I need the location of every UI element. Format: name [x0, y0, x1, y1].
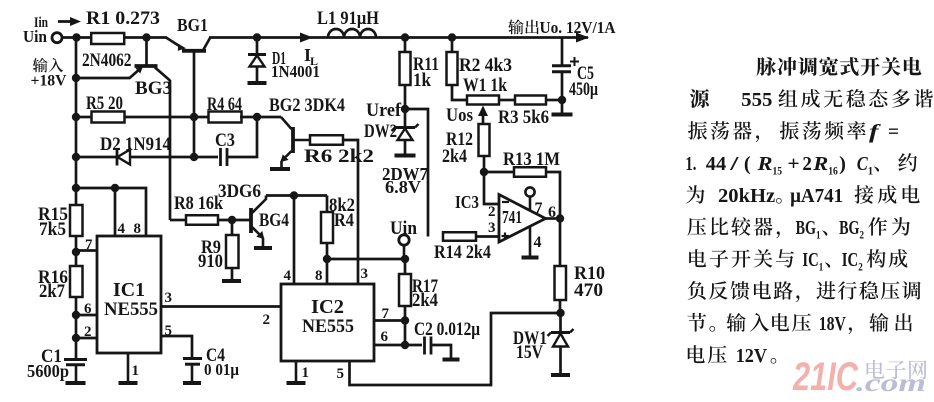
svg-text:1k: 1k — [413, 70, 431, 91]
resistor R10 — [555, 266, 567, 300]
wire op-amp output — [546, 217, 561, 220]
text 压比较器，BG1、BG2 作为 — [687, 217, 909, 242]
label pin3 (IC3) — [488, 220, 496, 236]
svg-text:555: 555 — [741, 89, 772, 111]
svg-text:+: + — [787, 153, 799, 175]
wire Uref to R14 — [405, 109, 428, 237]
svg-text:3: 3 — [488, 220, 496, 236]
label C1 — [41, 346, 62, 367]
label 15V — [516, 342, 543, 363]
svg-text:/: / — [729, 153, 739, 175]
transistor BG3 bar — [135, 64, 158, 68]
resistor R12 — [479, 124, 490, 156]
wire R17 to pin6 row — [404, 321, 407, 346]
svg-text:BG1: BG1 — [177, 15, 208, 35]
ground BG4 — [254, 246, 272, 250]
ground DW1 — [551, 373, 570, 377]
svg-text:18V: 18V — [819, 313, 847, 335]
svg-text:BG: BG — [839, 217, 860, 239]
svg-text:(: ( — [744, 153, 751, 175]
resistor R2 — [447, 52, 458, 85]
wire BG3 collector down — [169, 80, 172, 220]
watermark .com — [856, 370, 926, 397]
ground C5 lead — [561, 100, 564, 113]
text 1.44/(R15+2R16) C1、约 — [685, 153, 917, 178]
label L1 91μH — [317, 8, 379, 29]
wire C2 left — [405, 344, 422, 347]
wire C5 top — [561, 38, 564, 66]
wire R13 left — [484, 171, 514, 174]
text title 源 — [690, 89, 709, 108]
svg-text:R4 64: R4 64 — [207, 94, 242, 115]
label DW2 — [364, 121, 397, 142]
label IC2 pin6 — [381, 329, 389, 345]
svg-text:W1 1k: W1 1k — [463, 75, 507, 96]
label 741 — [502, 207, 522, 227]
label IC2 — [311, 296, 344, 318]
label R4 64 — [207, 94, 242, 115]
capacitor C3 — [221, 148, 228, 166]
junction pin6 row IC2 — [401, 341, 409, 349]
svg-text:1: 1 — [302, 365, 310, 381]
ground op-amp pin4 — [522, 256, 539, 260]
transistor BG1 collector — [204, 38, 211, 50]
label IC2 pin5 — [337, 366, 345, 382]
svg-text:DW2: DW2 — [364, 121, 397, 142]
junction 8k2 bottom — [323, 255, 331, 263]
label R4 (8k2) — [334, 210, 354, 231]
svg-text:5: 5 — [165, 323, 173, 339]
text 节。输入电压 18V，输出 — [687, 313, 911, 335]
label 5600p — [27, 361, 69, 381]
label 2N4062 — [82, 50, 132, 71]
wire R8 left — [170, 219, 186, 222]
transistor BG1 emitter — [166, 38, 186, 51]
wire C3 left — [194, 156, 218, 159]
label R1 0.273 — [86, 8, 160, 29]
IC2 NE555 box — [281, 284, 374, 361]
svg-text:470: 470 — [574, 280, 603, 301]
svg-text:2k4: 2k4 — [412, 290, 438, 311]
transistor BG3 emitter — [129, 67, 143, 79]
junction pin6 row — [72, 311, 80, 319]
label R5 20 — [86, 93, 123, 114]
svg-text:1: 1 — [868, 164, 873, 178]
output arrow — [576, 33, 589, 43]
label R12 — [446, 129, 473, 150]
svg-text:C2 0.012μ: C2 0.012μ — [414, 319, 480, 340]
svg-text:R5 20: R5 20 — [86, 93, 123, 114]
resistor R17 lead top — [404, 259, 407, 274]
diode D2 — [117, 149, 130, 166]
svg-text:R14 2k4: R14 2k4 — [434, 242, 491, 263]
label IC1 pin6 — [84, 301, 92, 317]
label R14 2k4 — [434, 242, 491, 263]
wire D2 row left — [76, 156, 118, 159]
resistor R10 lead — [559, 300, 562, 313]
svg-text:16: 16 — [828, 164, 838, 178]
junction R5 row — [72, 113, 80, 121]
label 2k4 (R12) — [442, 146, 467, 167]
wire R6 to IC2 pin3 — [343, 140, 358, 284]
label pin4 (IC3) — [534, 234, 542, 251]
svg-text:20kHz: 20kHz — [718, 185, 775, 207]
transistor BG3 collector — [155, 68, 170, 81]
wire C3 right — [227, 117, 257, 157]
svg-text:BG: BG — [796, 217, 817, 239]
junction D1 top — [253, 33, 261, 41]
svg-text:4: 4 — [118, 221, 126, 237]
svg-text:IC1: IC1 — [113, 279, 145, 301]
resistor R14 — [443, 232, 476, 241]
wire R14 right — [476, 235, 499, 238]
label R13 1M — [503, 149, 560, 170]
svg-text:NE555: NE555 — [302, 316, 354, 337]
label IC3 — [455, 192, 479, 212]
junction R11 top — [401, 33, 409, 41]
svg-text:IC: IC — [802, 249, 818, 271]
pin IC2 4 stub — [293, 196, 296, 285]
transistor BG2 emitter — [280, 151, 291, 162]
wire D2 to BG1 base — [130, 156, 194, 159]
svg-text:2: 2 — [860, 228, 865, 242]
wire R16-C1 — [75, 297, 78, 359]
svg-text:4: 4 — [284, 268, 292, 284]
junction R1 right BG3 base — [142, 33, 150, 41]
svg-text:1.: 1. — [685, 153, 696, 175]
resistor R5 — [92, 112, 125, 123]
label IC2 pin2 — [263, 312, 271, 328]
junction IC1 pin4 — [111, 184, 119, 192]
label R10 — [574, 263, 605, 284]
svg-text:2N4062: 2N4062 — [82, 50, 132, 71]
ground BG2 — [270, 167, 290, 171]
wire op-amp pin2 — [484, 172, 499, 204]
wire R13 right — [546, 172, 560, 219]
junction R3 C5 — [558, 96, 566, 104]
diode D1 — [248, 55, 266, 67]
label NE555 (IC1) — [104, 299, 158, 320]
junction R10 bottom — [556, 309, 564, 317]
resistor R16 — [70, 266, 83, 297]
label 1N4001 — [271, 62, 320, 81]
resistor R12 lead — [483, 156, 486, 172]
label BG1 — [177, 15, 208, 35]
label R3 5k6 — [498, 107, 549, 128]
svg-text:15V: 15V — [516, 342, 543, 363]
svg-text:5600p: 5600p — [27, 361, 69, 381]
junction Uin row — [401, 255, 409, 263]
junction rail top — [72, 33, 80, 41]
svg-text:7: 7 — [382, 306, 390, 322]
svg-text:15: 15 — [773, 164, 783, 178]
svg-text:5: 5 — [337, 366, 345, 382]
pin IC1 4 stub — [114, 188, 117, 236]
svg-text:R4: R4 — [334, 210, 354, 231]
svg-text:910: 910 — [198, 251, 223, 272]
label IC1 pin7 — [85, 237, 93, 253]
label IC1 pin1 — [132, 363, 140, 379]
ground C2 — [443, 358, 460, 362]
svg-text:450μ: 450μ — [569, 79, 598, 100]
text 为 20kHz。μA741 接成电 — [686, 185, 920, 207]
junction pin7 row — [401, 316, 409, 324]
wire R15-R16 — [75, 236, 78, 266]
resistor R8 — [186, 215, 218, 225]
zener DW2 — [392, 124, 419, 140]
watermark 21IC — [792, 355, 859, 399]
op-amp plus mark — [502, 233, 510, 240]
junction IC1 supply row — [72, 184, 80, 192]
junction pin2 row — [72, 334, 80, 342]
zener DW1 lead bottom — [559, 347, 562, 375]
transistor BG2 collector — [281, 117, 292, 129]
wire R2 to W1 — [452, 85, 467, 100]
label IC2 pin4 — [284, 268, 292, 284]
svg-text:IC3: IC3 — [455, 192, 479, 212]
label pin7 (IC3) — [535, 200, 543, 217]
junction D2 row — [72, 153, 80, 161]
label R6 2k2 — [304, 146, 374, 167]
svg-text:3: 3 — [361, 266, 369, 282]
label +18V — [31, 73, 67, 90]
resistor R9 — [226, 235, 239, 268]
terminal Uin stub — [403, 245, 406, 259]
label IC2 pin3 — [361, 266, 369, 282]
potentiometer W1 wiper — [478, 106, 488, 125]
svg-text:1: 1 — [819, 260, 824, 274]
label IC1 — [113, 279, 145, 301]
label 2k4 (R17) — [412, 290, 438, 311]
svg-text:R13 1M: R13 1M — [503, 149, 560, 170]
resistor R15 — [70, 205, 83, 236]
label IC1 pin3 — [165, 290, 173, 306]
label IL — [304, 45, 318, 68]
label 450μ — [569, 79, 598, 100]
wire top rail right — [209, 36, 588, 39]
resistor 8k2 lead bottom — [326, 243, 329, 259]
ground C1 — [66, 381, 86, 385]
junction R2 top — [448, 33, 456, 41]
label 0.01μ — [204, 360, 239, 379]
potentiometer W1 — [467, 96, 499, 105]
transistor BG1 base lead — [193, 51, 196, 157]
label Iin — [34, 15, 48, 31]
terminal Uin input — [52, 33, 62, 43]
svg-text:C3: C3 — [215, 130, 235, 151]
op-amp U1 triangle — [499, 195, 546, 243]
junction R15 bottom — [72, 248, 80, 256]
inductor L1 — [328, 29, 376, 38]
junction D2 BG1 base — [190, 153, 198, 161]
transistor BG4 collector — [252, 196, 266, 214]
label R16 — [38, 267, 68, 288]
pin 4 ground lead — [529, 226, 532, 256]
label R11 — [413, 54, 439, 75]
resistor R2 lead — [451, 38, 454, 53]
resistor R11 — [400, 52, 411, 85]
svg-text:+18V: +18V — [31, 73, 67, 90]
capacitor C4 — [183, 359, 202, 365]
junction R12 bottom — [480, 168, 488, 176]
wire R8 right — [218, 219, 250, 222]
label 2k7 — [39, 281, 65, 302]
svg-text:2: 2 — [802, 153, 812, 175]
resistor R6 — [310, 135, 343, 145]
svg-text:R3 5k6: R3 5k6 — [498, 107, 549, 128]
wire R5 row — [76, 116, 210, 119]
diode D1 lead bottom — [256, 67, 259, 83]
svg-text:2: 2 — [858, 260, 863, 274]
pin IC2 1 stub — [295, 361, 298, 382]
wire BG3 emitter to rail — [76, 77, 130, 80]
pin IC2 8 stub — [326, 259, 329, 284]
svg-text:R: R — [756, 153, 772, 175]
wire R3 right — [546, 99, 562, 102]
capacitor C1 lead — [75, 365, 78, 382]
wire comparator to IC2 pin5 — [350, 313, 561, 385]
resistor R9 lead bottom — [231, 268, 234, 280]
text 电子开关与 IC1、IC2 构成 — [689, 249, 907, 274]
text 电压 12V。 — [688, 345, 777, 367]
wire VCC row IC2 — [327, 258, 406, 261]
wire IC1 supply row — [76, 188, 146, 236]
resistor 8k2 lead top — [326, 196, 329, 213]
svg-text:BG4: BG4 — [259, 210, 289, 231]
ground R9 — [222, 279, 241, 283]
pin IC2 7 wire — [374, 319, 405, 322]
wire W1 to R3 — [499, 99, 515, 102]
IC1 NE555 box — [97, 236, 161, 353]
label C2 0.012μ — [414, 319, 480, 340]
label plus C5 — [570, 57, 579, 66]
svg-text:2k7: 2k7 — [39, 281, 65, 302]
pin IC1 3 wire — [161, 305, 281, 308]
svg-text:R8 16k: R8 16k — [174, 193, 223, 214]
svg-text:8: 8 — [315, 268, 323, 284]
wire left rail — [75, 38, 78, 206]
label IC2 pin8 — [315, 268, 323, 284]
label IC1 pin8 — [134, 221, 142, 237]
label W1 1k — [463, 75, 507, 96]
ground D1 — [248, 81, 267, 85]
label pin2 (IC3) — [488, 204, 496, 220]
zener DW2 lead — [404, 140, 407, 154]
capacitor C2 — [425, 337, 432, 355]
label 2DW7 — [382, 164, 428, 184]
label IC2 pin7 — [382, 306, 390, 322]
op-amp minus mark — [502, 201, 509, 203]
junction R8 R9 BG4 — [228, 216, 236, 224]
pin IC1 6 wire — [76, 314, 97, 317]
resistor R3 — [515, 96, 546, 105]
label IC2 pin1 — [302, 365, 310, 381]
label 910 — [198, 251, 223, 272]
svg-text:2: 2 — [84, 324, 92, 340]
svg-text:Uref: Uref — [366, 100, 402, 121]
resistor R11 lead top — [404, 38, 407, 53]
resistor R4 8k2 — [321, 212, 333, 243]
label NE555 (IC2) — [302, 316, 354, 337]
svg-text:Iin: Iin — [34, 15, 48, 31]
label Uin (node) — [390, 218, 417, 239]
label DW1 — [513, 328, 547, 349]
svg-text:3: 3 — [165, 290, 173, 306]
label IC1 pin5 — [165, 323, 173, 339]
label C4 — [206, 345, 225, 366]
label D1 — [272, 48, 286, 68]
capacitor C5 — [552, 66, 571, 100]
terminal Uin node — [399, 235, 409, 245]
transistor BG4 emitter lead — [262, 238, 265, 247]
svg-text:μA741: μA741 — [790, 185, 843, 207]
text title 脉冲调宽式开关电 — [757, 57, 922, 76]
ground IC1 pin1 — [119, 381, 138, 385]
svg-text:=: = — [888, 121, 899, 143]
svg-text:BG2 3DK4: BG2 3DK4 — [269, 95, 345, 116]
pin IC1 2 wire — [76, 337, 97, 340]
resistor R1 — [91, 33, 124, 44]
label IC1 pin2 — [84, 324, 92, 340]
label 7k5 — [39, 219, 66, 240]
label pin6 (IC3) — [548, 204, 556, 221]
svg-text:Uin: Uin — [390, 218, 417, 239]
junction +18V row — [72, 74, 80, 82]
capacitor C1 — [64, 360, 87, 365]
transistor BG2 bar — [291, 127, 295, 153]
pin IC1 5 wire — [161, 336, 192, 358]
label Uos — [446, 105, 473, 126]
current arrow IL — [300, 33, 313, 43]
pin IC1 7 wire — [76, 249, 97, 252]
svg-text:R2 4k3: R2 4k3 — [459, 55, 512, 76]
svg-text:Uo. 12V/1A: Uo. 12V/1A — [540, 18, 617, 37]
svg-text:0 01μ: 0 01μ — [204, 360, 239, 379]
label R8 16k — [174, 193, 223, 214]
wire BG4 collector row — [266, 194, 327, 197]
label 3DG6 — [218, 181, 261, 202]
svg-text:3DG6: 3DG6 — [218, 181, 261, 202]
text 负反馈电路，进行稳压调 — [688, 281, 921, 302]
label BG4 — [259, 210, 289, 231]
diode D1 lead — [256, 38, 259, 56]
label R15 — [38, 204, 68, 225]
ground C4 — [183, 381, 201, 385]
capacitor C4 lead — [191, 365, 194, 383]
junction R4 right — [253, 113, 261, 121]
svg-text:D2 1N914: D2 1N914 — [100, 134, 171, 155]
transistor BG2 base lead — [293, 139, 310, 142]
label 6.8V — [385, 177, 421, 197]
label 输出Uo. 12V/1A — [508, 18, 616, 37]
current arrow Iin — [58, 17, 81, 26]
svg-text:8: 8 — [134, 221, 142, 237]
label C3 — [215, 130, 235, 151]
label C5 — [577, 63, 594, 84]
svg-text:R1 0.273: R1 0.273 — [86, 8, 160, 29]
svg-text:R6 2k2: R6 2k2 — [304, 146, 374, 167]
transistor BG3 base lead — [145, 38, 148, 65]
svg-text:Uos: Uos — [446, 105, 473, 126]
svg-text:7: 7 — [85, 237, 93, 253]
svg-text:1: 1 — [132, 363, 140, 379]
pin 7 circle — [525, 187, 534, 210]
svg-text:2k4: 2k4 — [442, 146, 467, 167]
label R17 — [412, 276, 438, 297]
svg-text:44: 44 — [706, 153, 726, 175]
wire C2 right — [431, 345, 451, 358]
svg-text:2: 2 — [488, 204, 496, 220]
